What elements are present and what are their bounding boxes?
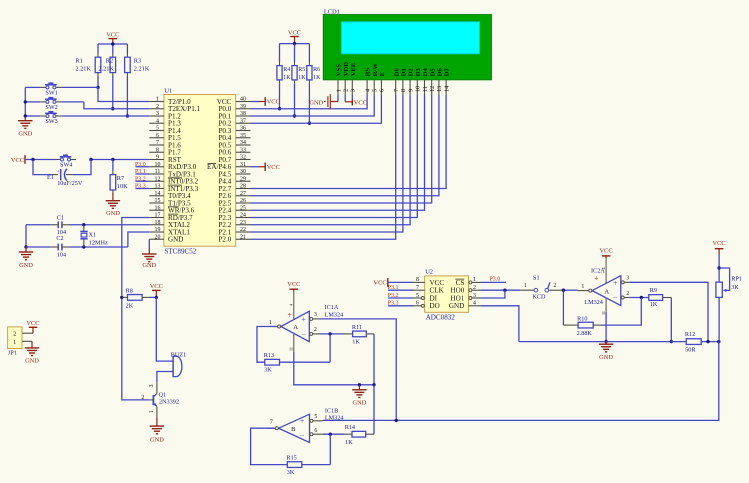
svg-text:VCC: VCC xyxy=(354,99,367,106)
net label P3.0 (U2 CS) xyxy=(481,277,507,283)
svg-text:D1: D1 xyxy=(401,68,408,76)
wire crystal left bus xyxy=(24,225,27,249)
svg-text:32: 32 xyxy=(240,155,246,161)
wire VCC to buzzer top xyxy=(156,297,173,361)
svg-text:SW4: SW4 xyxy=(60,162,72,169)
svg-text:2: 2 xyxy=(141,395,144,401)
svg-text:2.88K: 2.88K xyxy=(577,330,593,337)
svg-text:R4: R4 xyxy=(283,67,290,73)
lcd LCD1 xyxy=(323,8,491,94)
svg-text:1: 1 xyxy=(581,284,584,290)
svg-text:GND: GND xyxy=(309,99,323,106)
svg-text:3: 3 xyxy=(626,276,629,282)
svg-text:P3.3: P3.3 xyxy=(135,184,146,190)
svg-text:39: 39 xyxy=(240,104,246,110)
svg-text:R15: R15 xyxy=(286,454,296,461)
svg-text:8: 8 xyxy=(400,89,407,92)
power VCC (U2 pin 8) xyxy=(373,278,413,287)
svg-text:1: 1 xyxy=(13,339,16,346)
svg-text:DI: DI xyxy=(430,294,438,302)
svg-text:18: 18 xyxy=(155,220,161,226)
svg-text:R11: R11 xyxy=(352,324,362,331)
svg-text:22: 22 xyxy=(240,227,246,233)
svg-text:3K: 3K xyxy=(731,284,739,291)
resistor R10 2.88K xyxy=(563,290,641,337)
svg-text:RS: RS xyxy=(365,67,372,76)
adc U2 ADC0832 xyxy=(414,269,481,322)
crystal X1 12MHz xyxy=(80,225,108,247)
svg-text:3: 3 xyxy=(314,312,317,318)
svg-text:10uF/25V: 10uF/25V xyxy=(57,180,83,187)
svg-text:25: 25 xyxy=(240,205,246,211)
svg-text:23: 23 xyxy=(240,220,246,226)
svg-text:1: 1 xyxy=(269,320,272,326)
svg-text:4: 4 xyxy=(473,301,476,307)
svg-text:12MHz: 12MHz xyxy=(89,239,108,246)
svg-text:IC1A: IC1A xyxy=(325,304,339,311)
svg-text:14: 14 xyxy=(155,191,161,197)
svg-text:29: 29 xyxy=(240,176,246,182)
svg-text:VDD: VDD xyxy=(343,62,350,77)
svg-text:R7: R7 xyxy=(117,175,124,182)
svg-text:13: 13 xyxy=(436,86,443,92)
power VCC (R1-R3 rail) xyxy=(106,31,119,44)
resistor R5 1K xyxy=(292,66,306,81)
svg-text:38: 38 xyxy=(240,111,246,117)
wire E1 branch xyxy=(33,160,91,175)
svg-text:10: 10 xyxy=(415,86,422,92)
svg-text:21: 21 xyxy=(240,234,246,240)
svg-text:CS: CS xyxy=(456,279,465,287)
svg-text:9: 9 xyxy=(407,89,414,92)
svg-text:STC89C52: STC89C52 xyxy=(164,248,196,256)
op-amp IC2A LM324 xyxy=(578,258,630,315)
svg-text:S1: S1 xyxy=(533,274,540,281)
svg-text:BUZ1: BUZ1 xyxy=(171,351,186,358)
power VCC (R8) xyxy=(150,283,163,299)
svg-text:5: 5 xyxy=(416,293,419,299)
svg-text:VCC: VCC xyxy=(373,280,386,287)
svg-text:1: 1 xyxy=(524,283,527,289)
svg-text:VSS: VSS xyxy=(336,64,343,76)
wire R6 bottom xyxy=(308,80,311,125)
net label P3.3 (U1) xyxy=(135,184,149,190)
capacitor E1 10uF/25V xyxy=(47,169,83,187)
svg-text:GND: GND xyxy=(599,354,613,361)
svg-text:VCC: VCC xyxy=(288,29,301,36)
svg-text:GND: GND xyxy=(150,436,164,443)
wire U1 P0.1 to LCD R/W xyxy=(251,94,375,116)
svg-text:3K: 3K xyxy=(287,469,295,476)
svg-text:4: 4 xyxy=(156,118,159,124)
net label P3.2 (U1) xyxy=(135,176,149,182)
svg-text:8: 8 xyxy=(156,147,159,153)
svg-text:6: 6 xyxy=(379,89,386,92)
svg-text:GND: GND xyxy=(106,210,120,217)
svg-text:7: 7 xyxy=(270,420,273,426)
svg-text:1K: 1K xyxy=(352,339,360,346)
resistor R4 1K xyxy=(277,66,291,81)
switch SW1 xyxy=(40,83,61,97)
svg-text:2.21K: 2.21K xyxy=(134,66,150,73)
power VCC (IC2A) xyxy=(600,248,613,259)
switch SW2 xyxy=(40,97,61,111)
resistor R14 1K xyxy=(345,385,374,446)
wire IC1B pin6 node xyxy=(323,433,345,436)
svg-text:D7: D7 xyxy=(444,67,451,76)
svg-text:2: 2 xyxy=(553,283,556,289)
svg-text:1K: 1K xyxy=(298,75,306,81)
transistor Q1 2N3392 xyxy=(141,382,179,417)
svg-text:3: 3 xyxy=(149,384,155,387)
wire RST row xyxy=(31,158,149,161)
svg-text:P2.0: P2.0 xyxy=(218,236,231,244)
svg-text:SW3: SW3 xyxy=(45,118,57,125)
svg-text:R2: R2 xyxy=(106,57,113,64)
svg-text:31: 31 xyxy=(240,162,246,168)
svg-text:R9: R9 xyxy=(650,287,657,294)
ground GND (U1 pin 20) xyxy=(142,239,157,269)
svg-text:D3: D3 xyxy=(415,67,422,76)
power VCC (IC1A) xyxy=(287,281,300,291)
svg-text:D6: D6 xyxy=(437,67,444,76)
svg-text:LM324: LM324 xyxy=(325,415,344,422)
wire R2 bottom to pin2 row xyxy=(111,73,114,111)
svg-text:P3.0: P3.0 xyxy=(490,277,501,283)
svg-text:12: 12 xyxy=(155,176,161,182)
svg-text:1K: 1K xyxy=(313,75,321,81)
svg-text:5: 5 xyxy=(372,89,379,92)
svg-text:D2: D2 xyxy=(408,67,415,76)
svg-text:P3.3: P3.3 xyxy=(388,301,399,307)
wire SW1 to U1 pin1 xyxy=(61,87,149,101)
svg-text:P3.1: P3.1 xyxy=(388,285,399,291)
svg-text:3: 3 xyxy=(473,293,476,299)
ground GND (switches) xyxy=(18,116,33,138)
buzzer BUZ1 xyxy=(171,351,186,376)
wire IC1A output feedback to R13 xyxy=(257,327,278,363)
svg-text:E: E xyxy=(379,71,386,76)
wire C1 row to U1 XTAL2 xyxy=(69,223,149,226)
ground GND (Q1) xyxy=(150,418,165,444)
net label P3.1 (U1) xyxy=(135,169,149,175)
svg-text:3K: 3K xyxy=(264,367,272,374)
power VCC (U1 pin 40) xyxy=(251,97,280,106)
switch S1 KCD xyxy=(520,274,563,300)
svg-text:+: + xyxy=(57,169,60,175)
svg-text:26: 26 xyxy=(240,198,246,204)
resistor R12 50R xyxy=(685,331,701,353)
svg-text:R8: R8 xyxy=(126,288,133,295)
svg-text:27: 27 xyxy=(240,191,246,197)
svg-text:7: 7 xyxy=(416,285,419,291)
svg-text:5: 5 xyxy=(314,414,317,420)
svg-text:R1: R1 xyxy=(75,57,82,64)
svg-text:GND: GND xyxy=(25,358,39,365)
svg-text:VCC: VCC xyxy=(267,164,280,171)
svg-text:U2: U2 xyxy=(425,269,433,276)
svg-text:2: 2 xyxy=(156,104,159,110)
wire IC1B output feedback to R15 xyxy=(251,428,288,464)
svg-text:19: 19 xyxy=(155,227,161,233)
svg-text:7: 7 xyxy=(156,140,159,146)
svg-text:VCC: VCC xyxy=(713,240,726,247)
wire IC2A pin2 node xyxy=(629,296,648,299)
svg-text:104: 104 xyxy=(57,251,66,258)
svg-text:1: 1 xyxy=(335,89,342,92)
svg-text:D4: D4 xyxy=(422,67,429,76)
svg-text:33: 33 xyxy=(240,147,246,153)
svg-text:C2: C2 xyxy=(56,235,63,242)
mcu U1 STC89C52 xyxy=(149,88,250,256)
svg-text:GND: GND xyxy=(18,131,32,138)
wire R1 bottom to SW1 node xyxy=(96,73,99,90)
svg-text:17: 17 xyxy=(155,213,161,219)
svg-text:40: 40 xyxy=(240,97,246,103)
connector JP1 xyxy=(8,327,33,357)
svg-text:P3.2: P3.2 xyxy=(135,176,146,182)
svg-text:−: − xyxy=(301,330,306,339)
wire U2 GND to analog ground rail xyxy=(481,306,519,342)
svg-text:11: 11 xyxy=(155,169,161,175)
resistor R15 3K xyxy=(286,434,330,476)
svg-text:6: 6 xyxy=(156,133,159,139)
wire U1 XTAL1 jog xyxy=(128,232,149,247)
svg-text:20: 20 xyxy=(155,234,161,240)
wire IC1A V- to ground row xyxy=(294,352,376,386)
wire IC2A V- to ground rail xyxy=(604,312,607,344)
svg-text:1: 1 xyxy=(156,97,159,103)
svg-text:2: 2 xyxy=(473,285,476,291)
svg-text:5: 5 xyxy=(156,126,159,132)
svg-text:2.21K: 2.21K xyxy=(98,66,114,73)
net label P3.2 (U2) xyxy=(388,293,414,299)
wire SW2 to U1 pin2 xyxy=(61,102,149,109)
wire VCC bus to R1 R2 R3 tops xyxy=(98,42,127,57)
svg-text:28: 28 xyxy=(240,184,246,190)
svg-text:2.21K: 2.21K xyxy=(75,66,91,73)
svg-text:U1: U1 xyxy=(164,88,172,95)
wire S1 to IC2A output xyxy=(562,289,578,292)
svg-text:R12: R12 xyxy=(685,331,695,338)
switch SW4 xyxy=(55,155,76,169)
wire U1 P0.0 to LCD RS xyxy=(251,94,368,108)
power VCC (RP1) xyxy=(713,240,726,254)
resistor R3 xyxy=(125,57,150,72)
svg-text:A: A xyxy=(293,324,298,331)
svg-text:4: 4 xyxy=(364,89,371,92)
svg-text:VCC: VCC xyxy=(11,157,24,164)
wire C2 row to X1 bottom xyxy=(69,245,128,248)
ground GND (IC1A) xyxy=(352,385,367,407)
resistor R2 xyxy=(98,57,115,72)
wire U2 HO0/HO1 tie xyxy=(481,289,521,299)
svg-text:LCD1: LCD1 xyxy=(324,8,340,15)
wire VCC bus to R4 R5 R6 xyxy=(280,42,310,66)
svg-text:+: + xyxy=(288,310,293,319)
svg-text:JP1: JP1 xyxy=(8,350,17,357)
svg-text:LM324: LM324 xyxy=(584,299,603,306)
power VCC (reset) xyxy=(11,155,33,164)
ground GND (R7) xyxy=(106,196,121,217)
svg-text:2: 2 xyxy=(343,89,350,92)
svg-text:DO: DO xyxy=(430,302,440,310)
power VCC (R4-R6) xyxy=(288,29,301,43)
svg-text:11: 11 xyxy=(422,86,429,92)
svg-text:6: 6 xyxy=(416,301,419,307)
svg-text:P3.0: P3.0 xyxy=(135,162,146,168)
resistor R13 3K xyxy=(264,334,330,374)
wire RP1/R12 node to IC1B pin5 rail xyxy=(323,342,719,421)
svg-text:HO1: HO1 xyxy=(451,294,465,302)
svg-text:D0: D0 xyxy=(393,67,400,76)
svg-text:R/W: R/W xyxy=(372,63,379,77)
svg-text:7: 7 xyxy=(393,89,400,92)
svg-text:LM324: LM324 xyxy=(325,311,344,318)
resistor R7 10K xyxy=(110,160,128,197)
svg-text:−: − xyxy=(300,432,305,441)
power VCC (JP1) xyxy=(26,320,39,333)
svg-text:D5: D5 xyxy=(429,67,436,76)
svg-text:VCC: VCC xyxy=(430,279,445,287)
ground GND (JP1) xyxy=(25,341,40,364)
svg-text:+: + xyxy=(300,417,305,426)
svg-text:−: − xyxy=(613,294,618,303)
svg-text:VCC: VCC xyxy=(106,31,119,38)
svg-text:2: 2 xyxy=(314,327,317,333)
svg-text:2N3392: 2N3392 xyxy=(159,399,179,406)
svg-text:13: 13 xyxy=(155,184,161,190)
svg-text:HO0: HO0 xyxy=(451,287,465,295)
resistor R1 xyxy=(75,57,100,72)
svg-text:VEE: VEE xyxy=(350,62,357,76)
power GND (LCD VSS) xyxy=(309,94,338,109)
ground GND (crystal) xyxy=(19,247,34,269)
wire U1 P0.2 to LCD E xyxy=(251,94,382,123)
svg-text:2: 2 xyxy=(626,291,629,297)
resistor R8 2K xyxy=(122,288,157,310)
svg-text:B: B xyxy=(291,426,296,433)
capacitor C1 104 xyxy=(26,214,69,236)
svg-text:P3.1: P3.1 xyxy=(135,169,146,175)
svg-text:1K: 1K xyxy=(283,75,291,81)
svg-text:50R: 50R xyxy=(685,346,696,353)
svg-text:10K: 10K xyxy=(117,183,128,190)
net label P3.0 (U1) xyxy=(135,162,149,168)
resistor R6 1K xyxy=(307,66,321,81)
svg-text:R14: R14 xyxy=(345,424,355,431)
svg-text:11: 11 xyxy=(601,311,606,315)
svg-text:34: 34 xyxy=(240,140,246,146)
svg-text:VCC: VCC xyxy=(287,281,300,288)
wire R4 bottom xyxy=(278,80,281,111)
svg-text:RP1: RP1 xyxy=(731,275,742,282)
svg-text:SW2: SW2 xyxy=(45,104,57,111)
svg-text:9: 9 xyxy=(156,155,159,161)
resistor R9 1K xyxy=(649,287,673,343)
ground GND (analog rail) xyxy=(599,342,614,361)
svg-text:+: + xyxy=(301,315,306,324)
svg-text:1: 1 xyxy=(149,410,155,413)
net label P3.3 (U2) xyxy=(388,301,414,307)
wire SW3 to U1 pin3 xyxy=(61,115,149,117)
svg-text:KCD: KCD xyxy=(532,294,546,301)
wire buzzer bottom to Q1 collector xyxy=(157,372,173,383)
potentiometer RP1 3K xyxy=(716,254,742,342)
wire IC2A pin3 to R12 node xyxy=(629,282,708,341)
svg-text:GND: GND xyxy=(142,262,156,269)
svg-text:2: 2 xyxy=(13,331,16,338)
svg-text:GND: GND xyxy=(19,262,33,269)
svg-text:1: 1 xyxy=(473,277,476,283)
svg-text:R3: R3 xyxy=(134,57,141,64)
capacitor C2 104 xyxy=(26,235,69,259)
svg-text:GND: GND xyxy=(352,400,366,407)
svg-text:C1: C1 xyxy=(57,214,64,221)
wire R5 bottom xyxy=(293,80,296,118)
svg-text:3: 3 xyxy=(350,89,357,92)
svg-text:16: 16 xyxy=(155,205,161,211)
wire switches left bus xyxy=(24,87,41,117)
svg-text:E1: E1 xyxy=(47,174,54,181)
op-amp IC1A LM324 xyxy=(269,292,343,353)
svg-text:VCC: VCC xyxy=(150,283,163,290)
svg-text:1K: 1K xyxy=(650,301,658,308)
svg-text:VCC: VCC xyxy=(26,320,39,327)
svg-text:35: 35 xyxy=(240,133,246,139)
svg-text:30: 30 xyxy=(240,169,246,175)
wire IC1A pin3 to IC1B pin5 rail xyxy=(319,319,398,422)
svg-text:2K: 2K xyxy=(126,302,134,309)
svg-text:10: 10 xyxy=(155,162,161,168)
power VCC (LCD VDD/VEE) xyxy=(345,94,367,106)
svg-text:GND: GND xyxy=(168,236,183,244)
svg-text:R10: R10 xyxy=(577,316,587,323)
svg-text:R6: R6 xyxy=(313,67,320,73)
svg-text:3: 3 xyxy=(156,111,159,117)
wire U1 P2.0-P2.7 to LCD D0-D7 xyxy=(251,94,447,239)
wire analog ground rail xyxy=(519,340,721,343)
svg-text:37: 37 xyxy=(240,118,246,124)
svg-text:15: 15 xyxy=(155,198,161,204)
svg-text:R5: R5 xyxy=(298,67,305,73)
svg-text:CLK: CLK xyxy=(430,287,445,295)
svg-text:IC1B: IC1B xyxy=(325,407,338,414)
svg-text:8: 8 xyxy=(416,277,419,283)
svg-text:36: 36 xyxy=(240,126,246,132)
power VCC (U1 pin 31) xyxy=(251,162,280,171)
wire U1 RD/P3.7 to Q1 base xyxy=(120,218,149,400)
resistor R11 1K xyxy=(344,324,374,385)
svg-text:P3.2: P3.2 xyxy=(388,293,399,299)
svg-text:1K: 1K xyxy=(345,439,353,446)
svg-text:12: 12 xyxy=(429,86,436,92)
svg-text:+: + xyxy=(594,274,599,283)
svg-text:+: + xyxy=(613,279,618,288)
svg-text:GND: GND xyxy=(449,302,464,310)
svg-text:Q1: Q1 xyxy=(159,392,167,399)
wire R3 bottom to pin3 row xyxy=(126,73,129,118)
svg-text:14: 14 xyxy=(443,86,450,92)
op-amp IC1B LM324 xyxy=(267,407,343,442)
svg-text:R13: R13 xyxy=(264,352,274,359)
svg-text:ADC0832: ADC0832 xyxy=(426,313,456,321)
wire IC1A pin2 node xyxy=(319,332,344,335)
svg-text:VCC: VCC xyxy=(600,248,613,255)
svg-text:A: A xyxy=(604,288,609,295)
net label P3.1 (U2) xyxy=(388,285,414,291)
svg-text:24: 24 xyxy=(240,213,246,219)
